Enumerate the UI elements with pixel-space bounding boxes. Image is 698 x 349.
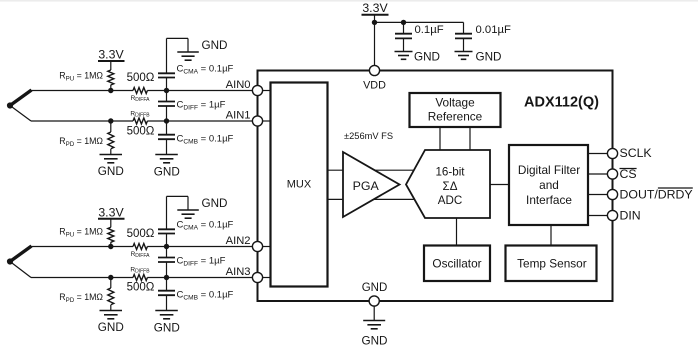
resistor R_PD = 1M (top-left): [108, 118, 113, 123]
svg-text:16-bit: 16-bit: [435, 166, 465, 179]
capacitor 0.01uF (bypass): [455, 22, 472, 51]
pin GND (bottom): [369, 296, 379, 306]
svg-text:GND: GND: [362, 335, 388, 348]
node: R_PU / AIN0 junction: [108, 88, 113, 93]
ground for C_CMA (bottom network): [177, 210, 199, 218]
svg-text:Voltage: Voltage: [435, 96, 475, 110]
svg-text:PGA: PGA: [353, 179, 380, 193]
wire: switch S2 to AIN3: [31, 277, 133, 279]
ground below R_PD (bottom-left): [100, 311, 123, 319]
wire: MUX to PGA (+): [328, 169, 414, 171]
ground for 0.1uF bypass: [395, 52, 413, 60]
pin AIN1: [252, 116, 262, 126]
svg-text:AIN3: AIN3: [226, 266, 251, 278]
svg-text:500Ω: 500Ω: [127, 228, 155, 240]
svg-text:MUX: MUX: [287, 179, 312, 191]
wire: reference to ADC (right): [469, 127, 471, 150]
ground for 0.01uF bypass: [455, 52, 473, 60]
wire: switch S2 to AIN2: [31, 246, 133, 248]
svg-text:ΣΔ: ΣΔ: [443, 180, 458, 193]
svg-text:DIN: DIN: [620, 209, 641, 223]
svg-text:Oscillator: Oscillator: [432, 257, 481, 271]
svg-text:GND: GND: [154, 166, 180, 179]
pin DOUT/DRDY: [607, 189, 617, 199]
wire: switch S1 to AIN0: [31, 90, 133, 92]
svg-text:AIN0: AIN0: [226, 79, 251, 91]
wire: MUX to PGA (-): [328, 198, 414, 200]
supply 3.3V (bottom-left): [98, 219, 125, 228]
svg-text:AIN1: AIN1: [226, 109, 251, 121]
svg-text:CCMB = 0.1µF: CCMB = 0.1µF: [177, 134, 234, 146]
svg-text:500Ω: 500Ω: [127, 126, 155, 138]
capacitor C_DIFF = 1uF (top network): [158, 91, 175, 122]
svg-text:500Ω: 500Ω: [127, 282, 155, 294]
node: C_CMA / AIN0 junction: [164, 88, 169, 93]
pin SCLK: [607, 148, 617, 158]
node: C_CMA2 / AIN2 junction: [164, 244, 169, 249]
wire: digital filter to SCLK pin: [588, 153, 613, 155]
svg-text:RDIFFB: RDIFFB: [130, 267, 150, 275]
svg-text:and: and: [539, 178, 559, 192]
svg-text:GND: GND: [154, 322, 180, 335]
wire: digital filter to DIN pin: [588, 215, 613, 217]
svg-text:DOUT/DRDY: DOUT/DRDY: [620, 187, 693, 201]
svg-text:0.1µF: 0.1µF: [415, 24, 444, 36]
capacitor C_CMB = 0.1uF (top network): [158, 121, 175, 155]
svg-text:ADX112(Q): ADX112(Q): [524, 95, 599, 111]
svg-text:GND: GND: [476, 51, 502, 64]
svg-text:Interface: Interface: [526, 193, 572, 207]
wire: digital filter to DOUT/DRDY pin: [588, 194, 613, 196]
digital filter and interface block: [509, 145, 588, 225]
wire: AIN3 pin to MUX: [262, 277, 270, 279]
MUX block: [271, 83, 328, 287]
svg-text:3.3V: 3.3V: [98, 205, 124, 219]
svg-text:GND: GND: [98, 321, 124, 334]
svg-text:3.3V: 3.3V: [362, 1, 388, 15]
op-amp PGA: [343, 152, 400, 217]
resistor R_PU = 1M (top-left): [108, 70, 114, 85]
pin DIN: [607, 210, 617, 220]
oscillator block: [424, 246, 490, 282]
resistor R_DIFFA 500ohm (bottom network): [133, 244, 147, 250]
supply 3.3V (top-left): [98, 61, 125, 70]
svg-text:RDIFFB: RDIFFB: [130, 111, 150, 119]
ground for C_CMA (top network): [177, 52, 199, 60]
svg-text:ADC: ADC: [438, 194, 462, 207]
svg-text:CCMA = 0.1µF: CCMA = 0.1µF: [177, 64, 234, 76]
wire: ADC to oscillator: [456, 218, 458, 246]
svg-text:RDIFFA: RDIFFA: [131, 95, 151, 103]
pin AIN3: [252, 272, 262, 282]
svg-text:SCLK: SCLK: [620, 146, 653, 160]
svg-text:CCMB = 0.1µF: CCMB = 0.1µF: [177, 290, 234, 302]
wire: digital filter to CS pin: [588, 173, 613, 175]
resistor R_DIFFB 500ohm (bottom network): [133, 275, 147, 281]
svg-text:RPD = 1MΩ: RPD = 1MΩ: [59, 136, 103, 148]
svg-text:CCMA = 0.1µF: CCMA = 0.1µF: [177, 220, 234, 232]
node: R_PU2 / AIN2 junction: [108, 244, 113, 249]
resistor R_DIFFA 500ohm: [133, 88, 147, 94]
ADC 16-bit sigma-delta block: [406, 150, 490, 218]
switch S1 (differential source): [7, 90, 32, 121]
wire: AIN2 pin to MUX: [262, 246, 270, 248]
svg-text:Reference: Reference: [428, 110, 483, 124]
temp sensor block: [506, 246, 597, 282]
svg-text:Digital Filter: Digital Filter: [518, 163, 580, 177]
wire: R_DIFFA to AIN0 pin: [147, 90, 257, 92]
wire: R_DIFFB to AIN1 pin: [147, 120, 257, 122]
svg-text:RPU = 1MΩ: RPU = 1MΩ: [59, 227, 103, 239]
ground for C_CMB (top network): [155, 155, 178, 163]
supply 3.3V (VDD decoupling): [362, 15, 389, 71]
svg-text:CDIFF = 1µF: CDIFF = 1µF: [177, 100, 226, 112]
wire: AIN1 pin to MUX: [262, 120, 270, 122]
svg-text:GND: GND: [202, 197, 228, 210]
ground for C_CMB (bottom network): [155, 311, 178, 319]
wire: AIN0 pin to MUX: [262, 90, 270, 92]
svg-text:VDD: VDD: [363, 80, 386, 92]
svg-text:CS: CS: [620, 167, 637, 181]
svg-text:GND: GND: [362, 282, 388, 294]
wire: digital filter to temp sensor: [550, 225, 552, 246]
svg-text:RDIFFA: RDIFFA: [131, 251, 151, 259]
svg-text:GND: GND: [414, 51, 440, 64]
ground (chip GND): [363, 321, 385, 329]
pin VDD: [369, 65, 379, 75]
wire: ADC to digital filter: [490, 184, 509, 186]
node: VDD rail junction: [372, 20, 377, 25]
wire: VDD rail to bypass caps: [375, 21, 464, 23]
resistor R_PU = 1M (bottom-left): [108, 227, 114, 242]
resistor R_DIFFB 500ohm: [133, 118, 147, 124]
ground below R_PD (top-left): [100, 155, 123, 163]
svg-text:CDIFF = 1µF: CDIFF = 1µF: [177, 256, 226, 268]
svg-text:RPU = 1MΩ: RPU = 1MΩ: [59, 71, 103, 83]
pin AIN0: [252, 85, 262, 95]
svg-text:GND: GND: [98, 165, 124, 178]
resistor R_PD = 1M (bottom-left): [108, 275, 113, 280]
svg-text:Temp Sensor: Temp Sensor: [517, 257, 587, 271]
capacitor C_CMB = 0.1uF (bottom network): [158, 278, 175, 311]
pin CS (active low): [607, 169, 617, 179]
wire: R_DIFFB2 to AIN3 pin: [147, 277, 257, 279]
IC outer boundary ADX112(Q): [258, 71, 613, 302]
switch S2 (differential source): [7, 246, 32, 278]
wire: GND pin to ground: [373, 306, 375, 321]
svg-text:AIN2: AIN2: [226, 235, 251, 247]
node: C_DIFF2 / AIN3 junction: [164, 275, 169, 280]
svg-text:3.3V: 3.3V: [98, 48, 124, 62]
svg-text:RPD = 1MΩ: RPD = 1MΩ: [59, 292, 103, 304]
pin AIN2: [252, 241, 262, 251]
capacitor C_CMA = 0.1uF (top network): [158, 38, 188, 90]
wire: R_DIFFA2 to AIN2 pin: [147, 246, 257, 248]
capacitor C_DIFF = 1uF (bottom network): [158, 247, 175, 278]
node: C_DIFF / AIN1 junction: [164, 118, 169, 123]
svg-text:GND: GND: [202, 39, 228, 52]
capacitor 0.1uF (bypass): [395, 22, 412, 51]
voltage reference block U_REF: [410, 93, 501, 127]
svg-text:500Ω: 500Ω: [127, 72, 155, 84]
svg-text:0.01µF: 0.01µF: [476, 24, 511, 36]
wire: reference to ADC (left): [439, 127, 441, 150]
svg-text:±256mV FS: ±256mV FS: [344, 131, 393, 141]
capacitor C_CMA = 0.1uF (bottom network): [158, 196, 188, 246]
wire: switch S1 to AIN1: [31, 120, 133, 122]
node: 0.1uF cap junction: [401, 20, 406, 25]
